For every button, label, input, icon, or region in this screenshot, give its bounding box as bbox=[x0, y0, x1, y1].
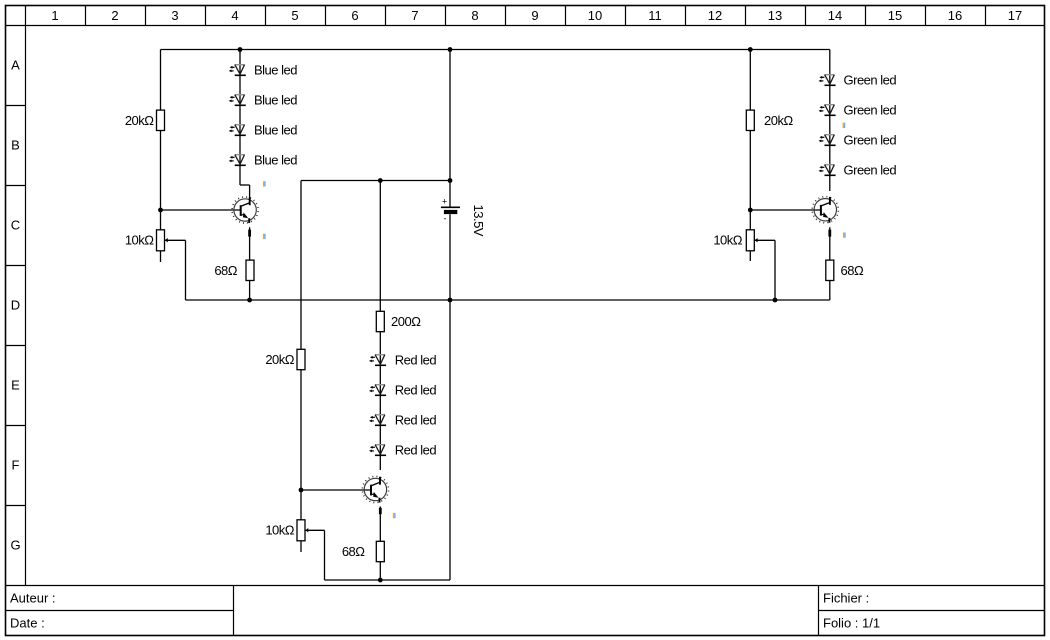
svg-text:8: 8 bbox=[471, 8, 478, 23]
column divider 1/2 bbox=[85, 6, 87, 26]
svg-text:+: + bbox=[442, 197, 447, 207]
wire green 20k branch bbox=[749, 50, 751, 231]
node red bottom rail / emitter bbox=[378, 578, 383, 583]
LED blue 3 bbox=[229, 123, 298, 138]
svg-text:68Ω: 68Ω bbox=[841, 263, 864, 278]
transistor Q1 (blue) NPN bbox=[231, 196, 259, 224]
wire red base wire bbox=[301, 489, 371, 491]
node mid rail / green wiper bbox=[773, 298, 778, 303]
column divider 13/14 bbox=[805, 6, 807, 26]
svg-text:20kΩ: 20kΩ bbox=[265, 352, 294, 367]
svg-text:Fichier :: Fichier : bbox=[823, 591, 869, 606]
blue emitter current mark bbox=[248, 230, 251, 237]
svg-text:14: 14 bbox=[828, 8, 842, 23]
wire left rail down (blue branch divider chain) bbox=[160, 50, 162, 263]
svg-text:Green led: Green led bbox=[844, 163, 897, 178]
svg-text:12: 12 bbox=[708, 8, 722, 23]
transistor Q2 (red) NPN bbox=[362, 476, 390, 504]
svg-text:Green led: Green led bbox=[844, 73, 897, 88]
svg-text:E: E bbox=[11, 378, 20, 393]
svg-text:Auteur :: Auteur : bbox=[10, 591, 56, 606]
LED green 4 bbox=[819, 163, 897, 178]
svg-text:68Ω: 68Ω bbox=[342, 544, 365, 559]
svg-text:Green led: Green led bbox=[844, 133, 897, 148]
LED blue 2 bbox=[229, 93, 298, 108]
svg-text:B: B bbox=[11, 138, 20, 153]
probe mark red emitter bbox=[393, 513, 396, 518]
column divider 8/9 bbox=[505, 6, 507, 26]
wire green emitter vertical bbox=[829, 227, 831, 300]
row divider D/E bbox=[6, 345, 26, 347]
svg-text:10kΩ: 10kΩ bbox=[265, 523, 294, 538]
column divider 10/11 bbox=[625, 6, 627, 26]
wire blue LED string bbox=[239, 50, 241, 186]
LED red 1 bbox=[369, 353, 436, 368]
svg-text:9: 9 bbox=[531, 8, 538, 23]
svg-text:1: 1 bbox=[51, 8, 58, 23]
probe mark blue emitter bbox=[263, 234, 266, 239]
wire green base wire bbox=[750, 209, 820, 211]
column divider 3/4 bbox=[205, 6, 207, 26]
wire battery positive wire bbox=[449, 50, 451, 207]
svg-text:D: D bbox=[11, 298, 20, 313]
resistor R4 20k&#937; (red divider top) bbox=[297, 349, 305, 369]
column divider 5/6 bbox=[325, 6, 327, 26]
potentiometer RV2 10k&#937; (red base) bbox=[265, 520, 308, 541]
svg-text:Blue led: Blue led bbox=[254, 93, 297, 108]
svg-text:5: 5 bbox=[291, 8, 298, 23]
wire red 200ohm/LED string bbox=[379, 181, 381, 471]
Auteur/Date divider line bbox=[6, 610, 234, 612]
title block divider before Fichier/Folio cells bbox=[818, 586, 820, 636]
resistor R1 20k&#937; (blue divider top) bbox=[157, 110, 165, 130]
column divider 15/16 bbox=[925, 6, 927, 26]
column divider 2/3 bbox=[145, 6, 147, 26]
node top rail / green 20k branch bbox=[748, 47, 753, 52]
wire red bottom rail bbox=[325, 579, 451, 581]
resistor R6 20k&#937; (green divider top) bbox=[746, 110, 754, 130]
potentiometer RV3 10k&#937; (green base) bbox=[713, 230, 757, 251]
potentiometer RV1 10k&#937; (blue base) bbox=[125, 230, 168, 251]
svg-text:10kΩ: 10kΩ bbox=[713, 233, 742, 248]
letter column right line bbox=[25, 6, 27, 586]
svg-text:2: 2 bbox=[111, 8, 118, 23]
wire blue collector vertical bbox=[249, 185, 251, 199]
probe mark blue collector bbox=[263, 181, 266, 186]
wire green wiper jog vertical bbox=[774, 240, 776, 300]
resistor R3 200&#937; (red series) bbox=[376, 311, 384, 331]
LED blue 4 bbox=[229, 153, 298, 168]
svg-text:Blue led: Blue led bbox=[254, 63, 297, 78]
svg-text:Red led: Red led bbox=[395, 383, 437, 398]
node mid rail / blue emitter bbox=[247, 298, 252, 303]
row divider B/C bbox=[6, 185, 26, 187]
column divider 4/5 bbox=[265, 6, 267, 26]
row divider F/G bbox=[6, 505, 26, 507]
wire red emitter vertical bbox=[379, 507, 381, 581]
svg-text:13.5V: 13.5V bbox=[471, 205, 486, 237]
LED green 1 bbox=[819, 73, 897, 88]
wire red wiper jog vertical bbox=[324, 530, 326, 580]
svg-text:11: 11 bbox=[648, 8, 662, 23]
svg-text:13: 13 bbox=[768, 8, 782, 23]
node red base junction bbox=[299, 488, 304, 493]
resistor R7 68&#937; (green emitter) bbox=[826, 260, 834, 280]
svg-text:-: - bbox=[444, 214, 447, 224]
svg-text:7: 7 bbox=[411, 8, 418, 23]
svg-text:68Ω: 68Ω bbox=[214, 263, 237, 278]
column divider 14/15 bbox=[865, 6, 867, 26]
Fichier/Folio divider line bbox=[819, 610, 1045, 612]
wire mid common rail (row D) bbox=[186, 299, 830, 301]
svg-text:20kΩ: 20kΩ bbox=[764, 113, 793, 128]
svg-text:17: 17 bbox=[1008, 8, 1022, 23]
title block divider after Auteur/Date cells bbox=[233, 586, 235, 636]
svg-text:10: 10 bbox=[588, 8, 602, 23]
wire green LED string bbox=[829, 50, 831, 192]
wire green wiper jog horizontal bbox=[754, 239, 775, 241]
probe mark green mid string bbox=[843, 123, 846, 128]
LED green 2 bbox=[819, 103, 897, 118]
column divider 9/10 bbox=[565, 6, 567, 26]
column divider 7/8 bbox=[445, 6, 447, 26]
node red feed / 200ohm branch bbox=[378, 178, 383, 183]
svg-text:Red led: Red led bbox=[395, 443, 437, 458]
svg-text:20kΩ: 20kΩ bbox=[125, 113, 154, 128]
svg-text:Date :: Date : bbox=[10, 616, 45, 631]
wire blue wiper jog horizontal bbox=[165, 239, 186, 241]
node mid rail / battery bbox=[448, 298, 453, 303]
node blue base junction bbox=[158, 208, 163, 213]
LED red 4 bbox=[369, 443, 436, 458]
transistor Q3 (green) NPN bbox=[812, 196, 840, 224]
wire positive feed to red branch bbox=[301, 180, 450, 182]
svg-text:G: G bbox=[10, 538, 20, 553]
wire battery negative wire bbox=[449, 214, 451, 580]
column divider 12/13 bbox=[745, 6, 747, 26]
LED green 3 bbox=[819, 133, 897, 148]
svg-text:6: 6 bbox=[351, 8, 358, 23]
svg-text:Green led: Green led bbox=[844, 103, 897, 118]
svg-text:4: 4 bbox=[231, 8, 238, 23]
wire top supply rail bbox=[161, 49, 830, 51]
svg-text:Blue led: Blue led bbox=[254, 123, 297, 138]
probe mark green emitter bbox=[843, 233, 846, 238]
column divider 6/7 bbox=[385, 6, 387, 26]
node red feed / battery bbox=[448, 178, 453, 183]
resistor R2 68&#937; (blue emitter) bbox=[246, 260, 254, 280]
svg-text:Blue led: Blue led bbox=[254, 153, 297, 168]
wire blue base wire bbox=[161, 209, 241, 211]
resistor R5 68&#937; (red emitter) bbox=[376, 541, 384, 561]
svg-text:F: F bbox=[12, 458, 20, 473]
wire red wiper jog horizontal bbox=[305, 529, 325, 531]
svg-text:C: C bbox=[11, 218, 20, 233]
svg-text:3: 3 bbox=[171, 8, 178, 23]
battery B1 13.5V bbox=[441, 197, 460, 224]
header row bottom line bbox=[6, 25, 1045, 27]
LED red 2 bbox=[369, 383, 436, 398]
column divider 16/17 bbox=[985, 6, 987, 26]
node green base junction bbox=[748, 208, 753, 213]
row divider A/B bbox=[6, 105, 26, 107]
green emitter current mark bbox=[828, 230, 831, 237]
svg-text:16: 16 bbox=[948, 8, 962, 23]
LED red 3 bbox=[369, 413, 436, 428]
column divider 11/12 bbox=[685, 6, 687, 26]
node top rail / blue LED string bbox=[238, 47, 243, 52]
svg-text:Red led: Red led bbox=[395, 353, 437, 368]
LED blue 1 bbox=[229, 63, 298, 78]
row divider E/F bbox=[6, 425, 26, 427]
wire blue emitter vertical bbox=[249, 227, 251, 300]
wire blue wiper jog vertical bbox=[185, 240, 187, 300]
svg-text:Red led: Red led bbox=[395, 413, 437, 428]
red emitter current mark bbox=[379, 508, 382, 514]
wire red pot bottom stub bbox=[300, 541, 302, 552]
wire blue collector jog horizontal bbox=[240, 184, 250, 186]
wire green pot bottom stub bbox=[749, 251, 751, 261]
svg-text:10kΩ: 10kΩ bbox=[125, 233, 154, 248]
svg-text:A: A bbox=[11, 58, 20, 73]
node top rail / battery bbox=[448, 47, 453, 52]
svg-text:Folio : 1/1: Folio : 1/1 bbox=[823, 616, 880, 631]
row divider C/D bbox=[6, 265, 26, 267]
wire red branch left rail bbox=[300, 181, 302, 521]
title block top line bbox=[6, 585, 1045, 587]
svg-text:15: 15 bbox=[888, 8, 902, 23]
svg-text:200Ω: 200Ω bbox=[391, 314, 421, 329]
